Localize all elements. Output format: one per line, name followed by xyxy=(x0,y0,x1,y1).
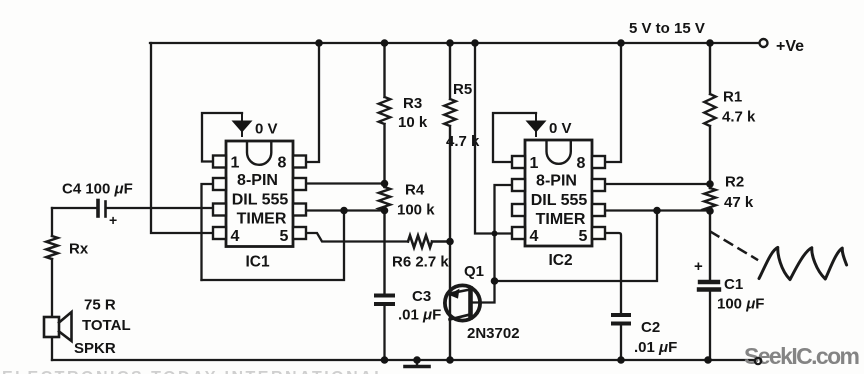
node bottom Q1 xyxy=(446,356,454,364)
node R6 R5 line xyxy=(446,238,454,246)
watermark SeekIC xyxy=(744,343,860,369)
svg-text:1: 1 xyxy=(530,155,539,172)
svg-text:R6 2.7 k: R6 2.7 k xyxy=(392,254,449,271)
wire Vcc to IC1 pin4 xyxy=(151,43,213,233)
node top rail IC2 reset xyxy=(471,39,479,47)
wire IC2 pin8 to top rail xyxy=(605,43,621,162)
svg-text:8: 8 xyxy=(577,155,586,172)
svg-text:IC2: IC2 xyxy=(548,252,572,269)
capacitor C4 xyxy=(96,201,100,217)
svg-text:0 V: 0 V xyxy=(255,121,278,138)
svg-text:TOTAL: TOTAL xyxy=(82,317,131,334)
watermark bottom faint xyxy=(2,369,386,374)
IC1 notch xyxy=(247,143,271,165)
node top rail R1 xyxy=(706,39,714,47)
svg-text:100 k: 100 k xyxy=(397,202,435,219)
svg-text:R1: R1 xyxy=(723,89,742,106)
wire IC2 pin5 to C2 xyxy=(605,233,621,314)
IC2 notch xyxy=(547,142,571,164)
resistor R6 xyxy=(408,236,450,248)
svg-text:4.7 k: 4.7 k xyxy=(722,109,756,126)
node R2 C1 xyxy=(706,207,714,215)
node dashed pointer to waveform xyxy=(711,232,757,260)
waveform sawtooth sketch xyxy=(759,247,847,279)
speaker SPKR xyxy=(44,312,72,341)
node IC2 pin4 crossing xyxy=(492,231,498,237)
wire IC2 pin2 down to Q1 base node xyxy=(495,185,513,281)
wire Q1 base to node xyxy=(473,281,495,303)
wire IC1 pin2 down to under loop xyxy=(202,184,214,280)
svg-text:.01 μF: .01 μF xyxy=(398,307,441,324)
node R1 R2 pin7 xyxy=(706,180,714,188)
wire top supply rail xyxy=(150,42,759,44)
svg-text:SPKR: SPKR xyxy=(74,340,116,357)
wire IC1 pin8 to top rail xyxy=(306,43,319,162)
ground 0V symbol IC1 xyxy=(232,113,253,136)
svg-text:2N3702: 2N3702 xyxy=(467,325,520,342)
svg-text:C2: C2 xyxy=(641,319,660,336)
node pin6 R2 branch xyxy=(653,207,661,215)
svg-text:5 V to 15 V: 5 V to 15 V xyxy=(629,20,705,37)
svg-text:8-PIN: 8-PIN xyxy=(536,173,577,190)
svg-text:0 V: 0 V xyxy=(549,120,572,137)
wire IC1 pin7 to R3 R4 node xyxy=(306,182,385,184)
svg-text:C4 100 μF: C4 100 μF xyxy=(62,181,133,198)
wire IC2 under loop to pin6 net xyxy=(495,211,658,282)
IC2 pin stubs left xyxy=(512,156,525,239)
wire bottom ground rail xyxy=(52,359,754,361)
wire IC1 under loop to pin6 net xyxy=(202,211,345,281)
svg-text:TIMER: TIMER xyxy=(536,211,586,228)
node top rail R3 xyxy=(381,39,389,47)
node under loop pin6 xyxy=(340,207,348,215)
svg-text:R5: R5 xyxy=(453,81,472,98)
node bottom C1 xyxy=(704,356,712,364)
resistor Rx xyxy=(46,236,58,259)
IC1 pin stubs right xyxy=(293,156,306,240)
svg-text:C3: C3 xyxy=(412,288,431,305)
label C4 value xyxy=(62,181,133,229)
resistor R2 xyxy=(704,188,716,280)
node R4 bottom pin6 xyxy=(381,207,389,215)
wire Vcc to IC2 pin4 xyxy=(475,43,512,234)
node top rail R5 xyxy=(446,39,454,47)
wire IC1 pin1 to ground loop xyxy=(202,113,242,162)
resistor R3 xyxy=(379,43,391,187)
wire left vertical speaker branch xyxy=(51,208,53,360)
resistor R1 xyxy=(704,43,716,188)
svg-text:R2: R2 xyxy=(725,174,744,191)
node top rail IC1 pin8 xyxy=(315,39,323,47)
svg-text:8: 8 xyxy=(278,155,287,172)
IC1 pin numbers and text xyxy=(231,155,289,271)
IC2 555 body xyxy=(525,140,592,246)
svg-text:Q1: Q1 xyxy=(464,263,484,280)
capacitor C3 xyxy=(376,296,393,305)
wire IC2 pin6 to R2 bottom xyxy=(605,209,710,211)
IC1 pin stubs left xyxy=(213,156,226,240)
svg-text:8-PIN: 8-PIN xyxy=(237,172,278,189)
wire C4 to IC1 pin3 xyxy=(52,207,213,209)
svg-text:+Ve: +Ve xyxy=(776,38,804,55)
node bottom C3 xyxy=(381,356,389,364)
svg-text:+: + xyxy=(694,258,703,275)
capacitor C1 xyxy=(699,282,719,290)
transistor Q1 xyxy=(445,285,480,320)
svg-text:4: 4 xyxy=(530,228,539,245)
wire IC2 pin1 to ground loop xyxy=(493,113,536,162)
svg-text:C1: C1 xyxy=(724,276,743,293)
node R3 R4 pin7 xyxy=(381,180,389,188)
wire IC2 pin7 to R1 R2 node xyxy=(605,183,710,185)
svg-text:DIL 555: DIL 555 xyxy=(531,192,588,209)
svg-text:.01 μF: .01 μF xyxy=(634,339,677,356)
svg-text:R3: R3 xyxy=(403,95,422,112)
wire IC1 pin5 jog to R6 xyxy=(306,233,408,242)
IC2 pin numbers and text xyxy=(530,155,588,269)
ground symbol bottom rail xyxy=(416,360,418,365)
svg-text:100 μF: 100 μF xyxy=(717,296,764,313)
svg-text:Rx: Rx xyxy=(69,241,89,258)
svg-text:IC1: IC1 xyxy=(245,254,270,271)
capacitor C2 xyxy=(613,315,629,324)
svg-text:DIL 555: DIL 555 xyxy=(232,192,289,209)
terminal bottom xyxy=(755,358,761,364)
node Q1 base xyxy=(491,277,499,285)
op-amp? no: IC1 555 body xyxy=(226,141,293,247)
svg-text:10 k: 10 k xyxy=(398,114,428,131)
svg-text:5: 5 xyxy=(280,228,289,245)
node bottom ground xyxy=(413,356,421,364)
svg-text:47 k: 47 k xyxy=(724,194,754,211)
terminal +Ve xyxy=(760,39,768,47)
resistor R5 xyxy=(444,43,456,360)
resistor R4 xyxy=(379,187,391,293)
node bottom C2 xyxy=(617,356,625,364)
ground 0V symbol IC2 xyxy=(526,113,547,136)
svg-text:R4: R4 xyxy=(405,182,425,199)
svg-text:5: 5 xyxy=(579,228,588,245)
svg-text:+: + xyxy=(109,212,117,228)
svg-text:TIMER: TIMER xyxy=(237,211,287,228)
node top rail IC2 pin8 xyxy=(617,39,625,47)
svg-text:1: 1 xyxy=(231,155,240,172)
wire IC1 pin6 to R4 bottom xyxy=(306,209,385,211)
svg-text:ELECTRONICS TODAY INTERNATIONA: ELECTRONICS TODAY INTERNATIONAL xyxy=(2,369,386,374)
IC2 pin stubs right xyxy=(592,156,605,239)
svg-text:75 R: 75 R xyxy=(84,297,116,314)
svg-text:SeekIC.com: SeekIC.com xyxy=(744,343,860,369)
svg-text:4: 4 xyxy=(231,228,240,245)
